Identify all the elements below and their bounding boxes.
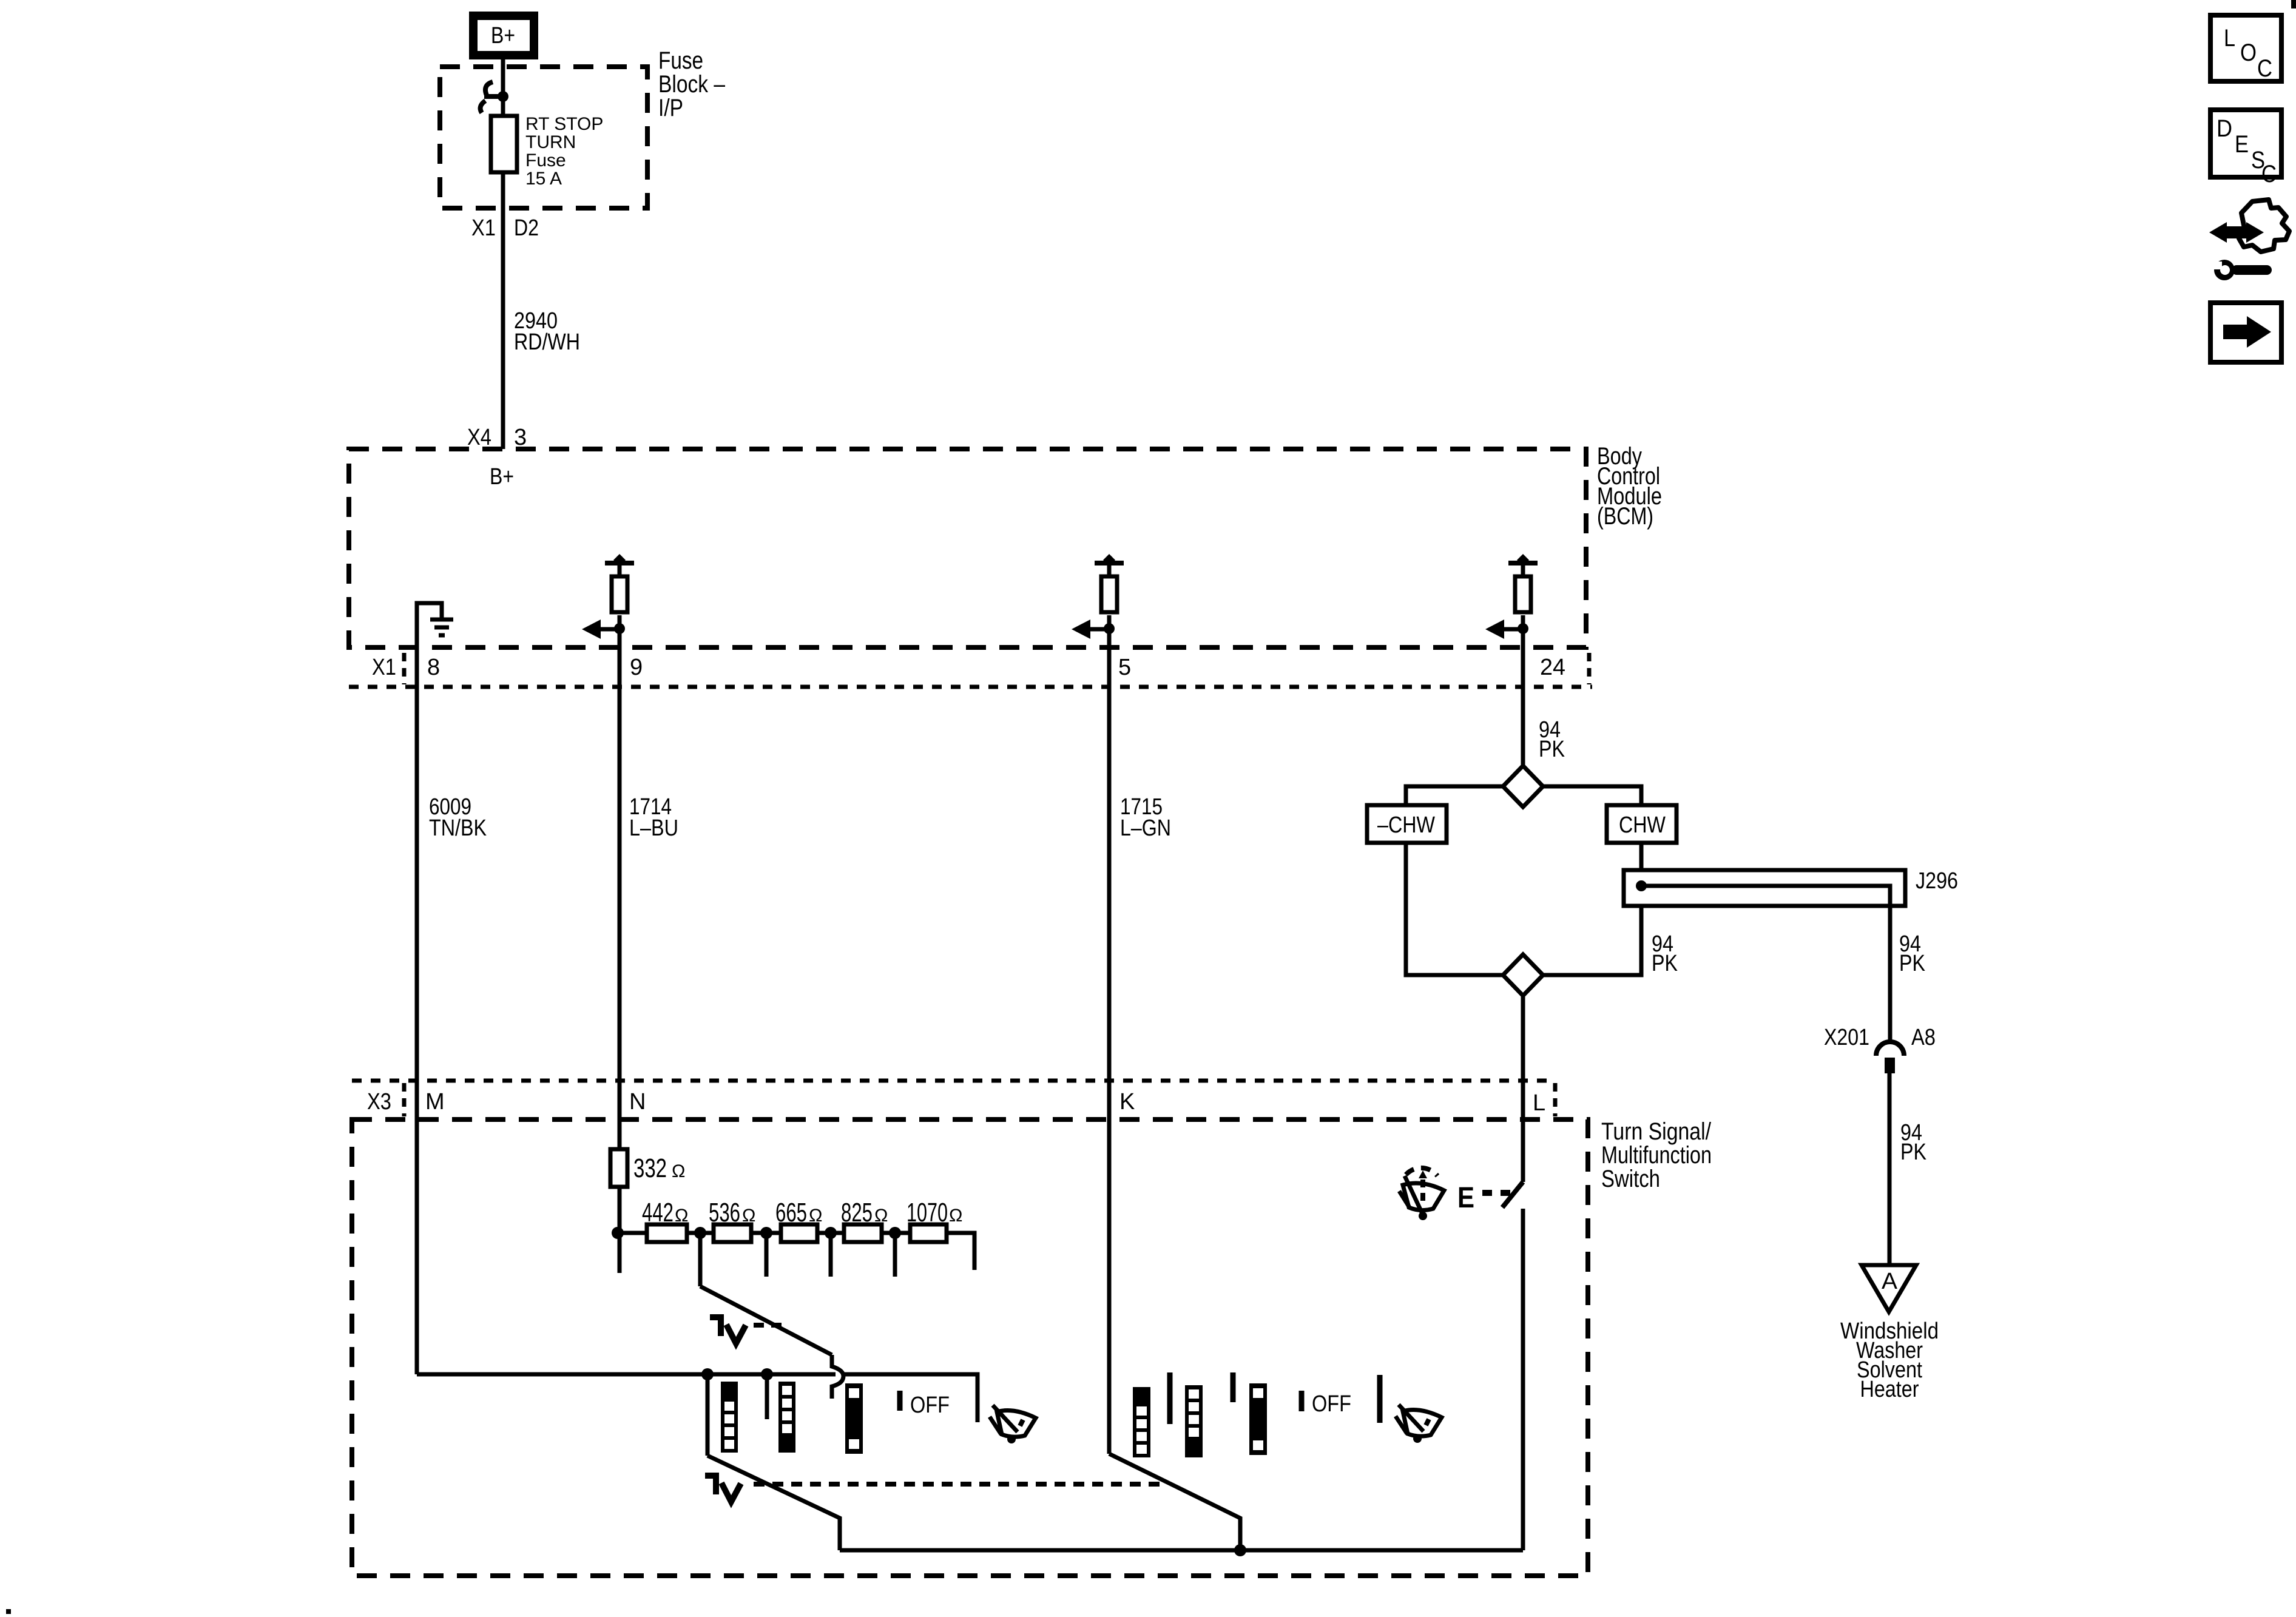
- svg-text:C: C: [2257, 55, 2272, 82]
- svg-text:X201: X201: [1824, 1025, 1869, 1050]
- svg-text:K: K: [1119, 1089, 1135, 1115]
- junction ladder start: [612, 1227, 624, 1239]
- svg-text:N: N: [629, 1089, 646, 1115]
- svg-text:L: L: [2224, 25, 2235, 52]
- svg-text:OFF: OFF: [1312, 1391, 1351, 1417]
- off-page triangle A: [1862, 1265, 1916, 1312]
- resistor 536 ohm: [714, 1224, 751, 1242]
- moving contact diagonal (intermittent wiper): [700, 1286, 832, 1355]
- svg-text:L: L: [1533, 1090, 1545, 1116]
- junction: [751, 1231, 781, 1235]
- wire B+ to fuse: [501, 59, 505, 118]
- wiper switch common rail from M: [417, 1372, 836, 1377]
- OFF tick (left group): [897, 1391, 903, 1411]
- resistor 1070 ohm: [910, 1224, 947, 1242]
- icon DESC box: [2210, 110, 2281, 187]
- washer wiper icon: [1399, 1168, 1444, 1220]
- svg-text:Ω: Ω: [675, 1206, 688, 1226]
- fuse RT STOP TURN 15A: [491, 116, 517, 172]
- icon adjust (hand/arrow/wrench): [2209, 200, 2289, 280]
- svg-text:15 A: 15 A: [525, 169, 562, 189]
- svg-text:Fuse: Fuse: [525, 150, 566, 170]
- tick 2 (right group): [1231, 1372, 1236, 1402]
- switch position box 3 (left): [845, 1383, 863, 1454]
- svg-text:O: O: [2240, 39, 2257, 66]
- svg-text:PK: PK: [1899, 951, 1925, 976]
- svg-text:RD/WH: RD/WH: [514, 329, 580, 355]
- svg-text:536: 536: [709, 1198, 740, 1227]
- wire 94 PK from pin 24: [1521, 650, 1525, 767]
- moving contact diagonal lower: [707, 1456, 840, 1550]
- power symbol B+ box: [473, 16, 534, 55]
- stub below junction 1 to mist contact: [706, 1374, 710, 1456]
- svg-text:L–GN: L–GN: [1120, 815, 1171, 841]
- svg-text:TURN: TURN: [525, 132, 576, 152]
- delay wipe symbol upper: [710, 1314, 784, 1343]
- wiper speed wire diagonal (K): [1109, 1454, 1240, 1550]
- svg-text:–CHW: –CHW: [1377, 812, 1435, 838]
- wire CHW down: [1543, 843, 1641, 975]
- svg-text:8: 8: [427, 655, 440, 680]
- svg-text:C: C: [2261, 161, 2277, 187]
- svg-text:24: 24: [1540, 655, 1565, 680]
- connector X3 right separator: [1553, 1083, 1558, 1116]
- svg-text:Turn Signal/: Turn Signal/: [1601, 1118, 1712, 1145]
- svg-text:Ω: Ω: [874, 1206, 888, 1226]
- tick 1 (right group): [1167, 1372, 1173, 1424]
- svg-text:X4: X4: [467, 425, 491, 450]
- wire 94 PK to heater: [1888, 1073, 1892, 1265]
- BCM dashed box: [349, 449, 1586, 647]
- wiper icon (left group): [990, 1405, 1036, 1443]
- svg-text:L–BU: L–BU: [629, 815, 678, 841]
- resistor ladder rail: [618, 1231, 647, 1235]
- svg-text:X3: X3: [367, 1089, 391, 1115]
- connector X1 right end separator: [1587, 653, 1592, 684]
- svg-text:J296: J296: [1916, 868, 1958, 894]
- svg-text:Ω: Ω: [742, 1206, 755, 1226]
- driver U2 (pin 5 output): [1072, 554, 1124, 650]
- svg-text:OFF: OFF: [910, 1393, 950, 1418]
- switch position box 2 (right): [1185, 1385, 1203, 1457]
- washer switch lower contact wire: [1521, 1209, 1525, 1550]
- svg-text:Ω: Ω: [809, 1206, 822, 1226]
- svg-text:Switch: Switch: [1601, 1166, 1660, 1192]
- switch position box 3 (right): [1249, 1383, 1267, 1455]
- connector X1 separator: [402, 653, 407, 684]
- fuse clip symbol: [481, 82, 508, 113]
- resistor 332 ohm: [610, 1149, 627, 1187]
- junction bottom rail: [1234, 1544, 1246, 1556]
- splice J296 bus: [1624, 870, 1905, 906]
- bottom feed rail: [840, 1548, 1523, 1553]
- wire fuse to connector X1/D2: [501, 172, 505, 208]
- splice diamond lower: [1503, 954, 1543, 996]
- svg-text:M: M: [425, 1089, 445, 1115]
- wire J296 to X201: [1888, 906, 1893, 1042]
- svg-text:E: E: [1457, 1182, 1474, 1214]
- driver U3 (pin 24 output): [1485, 554, 1538, 650]
- washer E dashes: [1482, 1190, 1517, 1196]
- svg-text:X1: X1: [471, 215, 496, 241]
- svg-text:Ω: Ω: [672, 1161, 685, 1181]
- svg-text:PK: PK: [1900, 1139, 1926, 1165]
- svg-text:Heater: Heater: [1860, 1377, 1919, 1402]
- wire 1714 L-BU: [618, 650, 622, 1150]
- svg-text:I/P: I/P: [658, 95, 683, 121]
- resistor 825 ohm: [844, 1224, 882, 1242]
- page bottom-left dot: [6, 1609, 11, 1614]
- connector X1 dotted line: [349, 685, 1592, 689]
- svg-text:X1: X1: [372, 655, 396, 680]
- junction: [817, 1231, 844, 1235]
- svg-text:Block –: Block –: [658, 71, 726, 98]
- coil CHW box: [1607, 805, 1676, 843]
- wire diamond to -CHW and CHW: [1406, 786, 1503, 805]
- wire lower diamond to pin L: [1521, 995, 1525, 1121]
- junction: [687, 1231, 714, 1235]
- junction: [882, 1231, 910, 1235]
- svg-text:A: A: [1882, 1269, 1898, 1294]
- svg-text:PK: PK: [1652, 951, 1678, 976]
- ground symbol: [430, 619, 453, 635]
- connector X3 separator: [402, 1083, 407, 1116]
- svg-text:825: 825: [841, 1198, 873, 1227]
- svg-text:1070: 1070: [907, 1198, 948, 1227]
- svg-text:Fuse: Fuse: [658, 47, 703, 74]
- svg-text:332: 332: [633, 1153, 667, 1183]
- stub below junction 2: [765, 1374, 769, 1419]
- svg-text:B+: B+: [491, 23, 515, 49]
- connector X3 dotted line: [352, 1079, 1554, 1083]
- splice diamond upper: [1503, 766, 1543, 807]
- svg-text:665: 665: [775, 1198, 807, 1227]
- svg-text:442: 442: [642, 1198, 674, 1227]
- rail end down: [947, 1233, 974, 1270]
- wire BCM internal ground leg: [417, 603, 442, 650]
- fuse block I/P dashed box: [440, 67, 647, 208]
- wire 1715 L-GN: [1107, 650, 1112, 1454]
- svg-text:(BCM): (BCM): [1597, 503, 1653, 530]
- wire 332 to ladder rail: [618, 1187, 622, 1273]
- washer switch blade: [1502, 1182, 1523, 1207]
- svg-text:A8: A8: [1911, 1025, 1936, 1050]
- driver U1 (pin 9 output): [582, 554, 634, 650]
- switch position box 1 (right): [1133, 1387, 1150, 1457]
- connector X201 A8: [1876, 1042, 1904, 1073]
- svg-text:RT STOP: RT STOP: [525, 114, 603, 134]
- moving contact hook: [832, 1355, 843, 1399]
- washer switch wire from L: [1521, 1121, 1525, 1182]
- page corner mark: [2291, 0, 2296, 8]
- junction rail 1: [701, 1368, 714, 1380]
- svg-text:D: D: [2217, 115, 2232, 142]
- svg-text:9: 9: [630, 655, 643, 680]
- svg-text:3: 3: [514, 425, 527, 450]
- wire 2940 RD/WH: [501, 208, 505, 449]
- ladder stubs: [698, 1233, 703, 1286]
- svg-text:E: E: [2235, 131, 2249, 158]
- svg-text:D2: D2: [514, 215, 539, 241]
- delay wipe symbol lower: [705, 1473, 1167, 1502]
- wiper icon (right group): [1396, 1405, 1442, 1443]
- wire -CHW down: [1406, 843, 1503, 975]
- switch position box 2 (left): [778, 1382, 795, 1453]
- svg-text:CHW: CHW: [1619, 812, 1666, 838]
- svg-text:5: 5: [1118, 655, 1131, 680]
- OFF tick (right group): [1299, 1391, 1305, 1411]
- svg-text:Ω: Ω: [949, 1206, 962, 1226]
- svg-text:B+: B+: [490, 464, 514, 490]
- resistor 665 ohm: [781, 1224, 817, 1242]
- svg-text:TN/BK: TN/BK: [429, 815, 487, 841]
- icon arrow box: [2210, 303, 2281, 362]
- svg-text:PK: PK: [1539, 737, 1565, 762]
- junction rail 2: [761, 1368, 773, 1380]
- icon LOC box: [2210, 15, 2281, 82]
- svg-text:Multifunction: Multifunction: [1601, 1142, 1712, 1169]
- resistor 442 ohm: [647, 1224, 687, 1242]
- wire 6009 TN/BK (ground wire M): [415, 650, 419, 1374]
- tick 3 (right group): [1377, 1375, 1383, 1423]
- switch position box 1 (left): [721, 1382, 738, 1453]
- coil -CHW box: [1367, 805, 1447, 843]
- turn signal / multifunction switch dashed box: [352, 1119, 1588, 1576]
